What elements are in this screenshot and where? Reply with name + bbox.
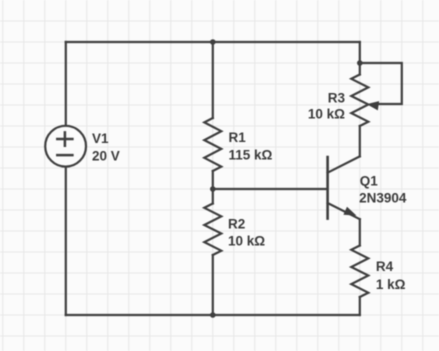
wire R2 bottom lead <box>212 255 214 315</box>
svg-text:2N3904: 2N3904 <box>359 190 407 205</box>
svg-text:Q1: Q1 <box>360 174 379 189</box>
resistor R2 <box>204 204 221 256</box>
junction node R3 top / wiper loop <box>357 60 363 66</box>
junction node base (R1/R2/base) <box>210 186 216 192</box>
Q1 emitter arrowhead <box>343 207 356 216</box>
svg-text:R1: R1 <box>229 130 247 145</box>
svg-text:10 kΩ: 10 kΩ <box>308 107 345 122</box>
wire left vertical upper <box>65 42 67 126</box>
wire R1 bottom lead <box>212 171 214 189</box>
resistor R4 <box>351 246 368 298</box>
svg-text:1 kΩ: 1 kΩ <box>376 277 406 292</box>
wire R2 top lead <box>212 189 214 204</box>
svg-text:R2: R2 <box>228 217 245 232</box>
wire R3 bottom lead / collector lead <box>359 126 361 156</box>
voltage source V1 circle <box>45 126 86 167</box>
svg-text:10 kΩ: 10 kΩ <box>228 234 265 249</box>
junction node bottom (R2 / bottom wire) <box>210 312 216 318</box>
junction node top (R1 / top wire) <box>210 39 216 45</box>
wire left vertical lower <box>65 166 67 315</box>
wire base horizontal <box>213 188 327 190</box>
wire emitter lead <box>359 219 361 245</box>
V1 plus sign <box>57 132 72 145</box>
R3 wiper arrowhead <box>366 99 379 110</box>
svg-text:20 V: 20 V <box>92 149 120 164</box>
svg-text:R4: R4 <box>376 259 394 274</box>
wire R4 bottom lead <box>359 297 361 315</box>
transistor Q1 emitter diagonal <box>328 203 360 219</box>
transistor Q1 collector diagonal <box>328 156 360 172</box>
svg-text:V1: V1 <box>92 131 109 146</box>
wire top horizontal <box>66 41 360 43</box>
wire R1 top lead <box>212 42 214 118</box>
wire R3 top lead <box>359 42 361 75</box>
resistor R3 <box>351 75 368 127</box>
wire bottom horizontal <box>66 314 360 316</box>
svg-text:115 kΩ: 115 kΩ <box>229 147 273 162</box>
transistor Q1 base bar <box>326 157 329 219</box>
resistor R1 <box>204 118 221 171</box>
wire R3 wiper loop <box>360 63 402 104</box>
V1 minus sign <box>57 154 72 157</box>
svg-text:R3: R3 <box>328 90 346 105</box>
